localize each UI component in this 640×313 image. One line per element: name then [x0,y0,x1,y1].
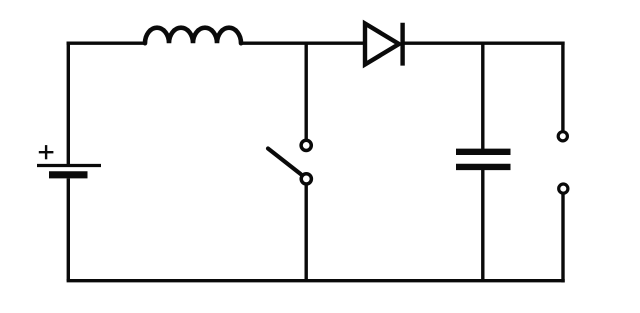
battery negative plate (short thick) [49,171,88,178]
switch S1 [268,140,311,184]
wire right rail lower (terminal to bottom wire) [561,194,564,282]
output terminal + (open circle) [558,132,567,141]
wire capacitor branch vertical lower [481,170,484,281]
inductor L1 [145,28,241,44]
switch bottom pin circle [301,174,311,184]
wire top-left horizontal segment (battery top to inductor) [67,42,146,45]
diode D1 [365,23,403,66]
battery positive plate (long thin) [37,164,101,167]
wire right rail upper (top wire to output terminal) [561,42,564,132]
wire diode cathode to top-right corner [403,42,565,45]
capacitor C1 [456,152,511,167]
wire capacitor branch vertical upper [481,43,484,149]
wire switch branch vertical (top wire down to switch top pin) [305,43,308,139]
wire switch bottom pin to bottom wire [305,185,308,281]
output terminal - (open circle) [559,184,568,193]
switch top pin circle [301,140,311,150]
battery BT1 [37,145,101,175]
wire left rail lower (battery to bottom wire) [67,178,70,280]
wire bottom rail [67,279,565,282]
wire left rail upper (top wire to battery) [67,42,70,165]
battery + label [39,145,54,159]
wire inductor to diode anode [241,42,365,45]
switch lever arm [268,149,301,175]
